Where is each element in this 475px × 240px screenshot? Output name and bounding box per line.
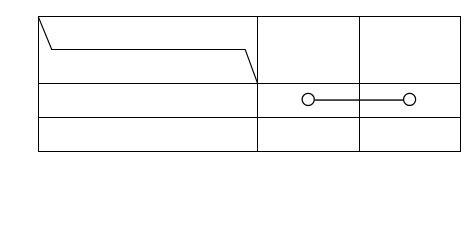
circle node A xyxy=(302,93,314,105)
connector wire between circles xyxy=(315,99,403,101)
vertical divider line 2 xyxy=(359,16,361,152)
horizontal divider line 1 xyxy=(38,83,461,85)
flag diagonal right xyxy=(245,50,257,84)
flag diagonal left xyxy=(38,17,51,50)
left border line xyxy=(38,16,40,152)
top border line xyxy=(38,16,461,18)
vertical divider line 1 xyxy=(257,16,259,152)
horizontal divider line 2 xyxy=(38,117,461,119)
right border line xyxy=(460,16,462,152)
flag horizontal line xyxy=(51,49,246,51)
circle node B xyxy=(404,93,416,105)
bottom border line xyxy=(38,151,461,153)
